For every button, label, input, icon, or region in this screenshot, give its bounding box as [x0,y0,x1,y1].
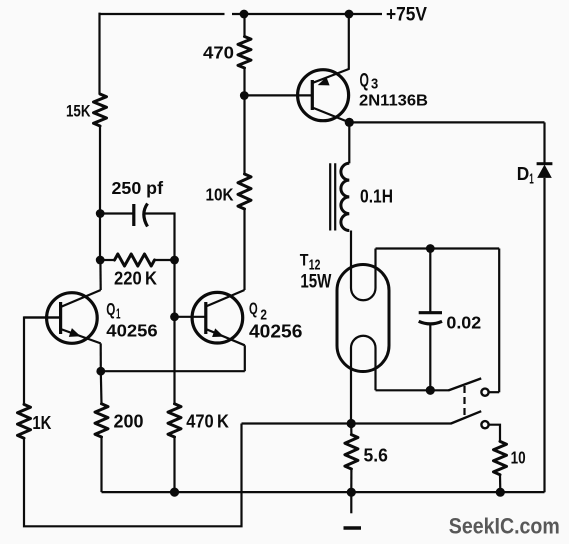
resistor R 5.6 [345,435,358,469]
wire Q3 emitter to rail [348,14,350,70]
resistor R 10K [238,174,251,209]
wire 470 top lead [243,13,245,37]
wire lamp to switch top [376,389,450,391]
svg-text:1: 1 [529,172,534,188]
resistor R 470 [238,37,251,69]
svg-text:0.1H: 0.1H [360,186,393,207]
wire Q1 base to left [24,318,61,405]
svg-text:Q: Q [106,299,115,319]
node 220K left [96,256,105,265]
switch S1b blade [451,411,481,423]
wire S1a contact hook [489,391,499,393]
resistor R 470K [168,404,181,437]
svg-text:3: 3 [371,76,378,93]
wire 5.6 bottom lead [350,469,352,492]
svg-text:SeekIC.com: SeekIC.com [449,514,560,539]
svg-text:2N1136B: 2N1136B [359,93,428,110]
svg-text:Q: Q [360,70,369,91]
wire 200 top lead [100,371,103,404]
wire Q2 emitter down [244,345,246,371]
wire left vertical mid [99,126,101,260]
inductor core lines [330,163,335,230]
wire right column down [498,249,500,393]
wire lamp top to right [376,247,500,249]
wire collector to right edge [349,121,544,123]
wire right vertical upper [543,122,545,163]
svg-text:200: 200 [114,411,144,432]
transistor Q3 [298,69,350,122]
wire emitter rail [101,370,245,372]
svg-text:1K: 1K [32,412,52,433]
wire 1K bottom [24,424,242,527]
capacitor C 0.02 [419,313,442,324]
svg-text:40256: 40256 [106,321,158,341]
lamp top filament [351,249,376,301]
wire Q3 base lead [244,94,312,96]
svg-text:Q: Q [249,299,258,318]
svg-text:0.02: 0.02 [446,313,481,333]
switch S1a blade [449,378,482,390]
node cap 250pf left [96,209,105,218]
wire collector node to coil [348,122,350,163]
wire 220K right stub [155,259,175,261]
wire 10K to Q2 collector [243,209,245,290]
node 470K bottom [170,488,179,497]
wire 5.6 top lead [350,424,352,435]
inductor 0.1H coil [341,163,349,230]
wire 470K bottom lead [173,437,175,492]
svg-text:220 K: 220 K [114,268,158,289]
wire middle vertical [173,260,175,404]
wire Q1 emitter down [100,343,102,371]
node 220K right [170,256,179,265]
wire 200 bottom lead [100,437,102,492]
transistor Q1 [24,290,101,343]
wire 250pf right lead [146,214,175,261]
ground bar [344,526,362,529]
node Q3 collector [345,118,354,127]
svg-text:5.6: 5.6 [364,445,388,466]
wire left vertical top [98,13,100,94]
node Q3 base junction [240,91,249,100]
wire 470 bottom lead [243,68,245,174]
diode D1 [537,164,553,178]
node 5.6 bottom [347,488,356,497]
wire 0.02 top lead [429,249,431,313]
wire top +75V rail [100,13,383,15]
node lamp / 5.6 junction [347,419,356,428]
wire right vertical lower [543,178,545,492]
transistor Q2 [175,290,245,345]
wire coil to lamp [350,231,352,289]
wire rail scan gap [225,11,233,17]
wire bottom common rail [102,491,545,493]
svg-text:470: 470 [203,43,234,63]
lamp bottom filament [351,336,376,424]
resistor R 15K [94,94,107,126]
node junction Q3 emitter top [345,10,354,19]
resistor R 1K [18,404,31,438]
node Q2 base [170,312,179,321]
svg-text:10: 10 [511,448,526,468]
node cap 0.02 top [426,244,435,253]
svg-text:250 pf: 250 pf [112,178,164,198]
svg-text:T: T [300,251,309,270]
resistor R 200 [95,404,108,437]
svg-text:+75V: +75V [386,5,427,26]
lamp T12 envelope [337,265,389,372]
svg-text:15W: 15W [300,272,331,293]
wire 250pf left lead [100,212,134,214]
wire 220K left stub [100,259,114,261]
svg-text:40256: 40256 [249,322,302,342]
resistor R 220K [115,254,155,266]
node 10 bottom [496,488,505,497]
wire left vertical to Q1 collector [99,260,101,290]
svg-text:470 K: 470 K [186,411,229,432]
svg-text:15K: 15K [66,102,91,121]
wire 10 bottom lead [499,475,501,493]
switch S1b contact [481,421,488,428]
switch gang dashed link [463,386,465,418]
wire 0.02 bottom lead [429,324,431,391]
svg-text:D: D [517,163,530,184]
node emitter rail left [96,367,105,376]
wire S1b contact hook [489,425,500,442]
capacitor C 250pf [134,204,148,227]
node 0.02 bottom [426,386,435,395]
wire bottom pole rail [242,422,452,424]
svg-text:10K: 10K [206,185,234,205]
ground stub [350,492,352,513]
node junction 470 top [240,10,249,19]
resistor R 10 [494,441,507,474]
switch S1a contact [481,389,488,396]
